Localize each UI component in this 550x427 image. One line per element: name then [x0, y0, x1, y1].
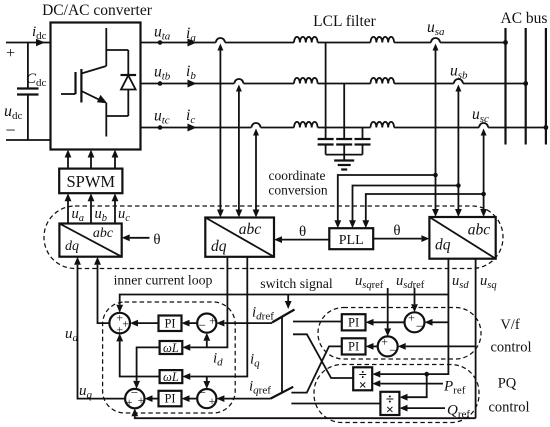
diode D1 triangle — [121, 75, 136, 89]
wire: S4 output to PI — [190, 398, 198, 400]
wire: u_q output from S3 up to left dq/abc — [78, 265, 126, 399]
wire: PLL theta to right dq/abc — [373, 238, 421, 240]
wire: DC positive rail — [6, 42, 51, 44]
wire: u_sq vertical from right dq/abc — [475, 259, 477, 419]
node: u_sd branch dot — [424, 372, 429, 377]
svg-text:+: + — [381, 335, 388, 349]
svg-text:+: + — [6, 45, 15, 62]
svg-text:DC/AC converter: DC/AC converter — [42, 2, 153, 19]
wire: modulation input u to SPWM x=68 — [67, 200, 69, 223]
diode D1 bottom lead — [127, 90, 129, 117]
node: junction dot — [433, 173, 438, 178]
wire: SW1 lower throw from PQ divider (crossing diagonal) — [293, 334, 353, 378]
svg-text:+: + — [209, 314, 216, 328]
ground — [343, 155, 345, 161]
inductor L2a — [371, 41, 395, 44]
svg-text:AC bus: AC bus — [501, 10, 548, 27]
capacitor Cdc branch wire bottom — [27, 95, 29, 141]
wire: voltage sense vertical x=435.5 — [433, 44, 439, 51]
svg-text:θ: θ — [393, 223, 400, 239]
capacitor Cfa — [318, 138, 334, 140]
inductor L2b — [371, 82, 395, 85]
inductor L1b — [294, 82, 318, 85]
tap bump at x=238.9 on phase b — [234, 82, 243, 85]
svg-text:−: − — [199, 385, 206, 400]
svg-text:dq: dq — [211, 238, 227, 255]
wire: switch signal drop arrow — [287, 295, 289, 302]
svg-text:−: − — [199, 318, 206, 333]
op block: divider/multiplier 1 — [353, 367, 372, 390]
svg-text:switch signal: switch signal — [260, 276, 333, 291]
node: phase c AC bus connection dot — [544, 125, 549, 130]
svg-text:abc: abc — [468, 222, 491, 239]
summing junction S6 (V/f q) — [378, 336, 398, 356]
arrow: emitter — [97, 95, 107, 104]
wire: u_sqref down into S6 — [387, 288, 389, 328]
arrow: i_a current direction — [188, 39, 197, 47]
wire: i_q branch down into S4 — [206, 377, 208, 382]
capacitor Cfc — [355, 138, 371, 140]
AC bus bar 1 — [504, 28, 506, 145]
transistor Q1 gate lead — [61, 93, 76, 95]
dashed boundary: coordinate conversion group — [44, 206, 503, 269]
wire: Q_ref input — [408, 407, 446, 409]
wire: DC negative rail — [6, 139, 51, 141]
svg-text:θ: θ — [153, 232, 160, 248]
node: junction dot — [456, 183, 461, 188]
wire: i_d feedback up into S2 — [206, 341, 208, 348]
tap bump at x=256.0 on phase c — [251, 126, 260, 129]
wire: u_sq feedforward line into S3 bottom — [135, 416, 476, 418]
inductor L1a — [294, 41, 318, 44]
wire: PLL feed line y=185.5 — [353, 186, 459, 221]
dashed boundary: PQ control — [314, 365, 479, 423]
wire: phase c line u_tc — [141, 127, 546, 129]
wire: PLL theta to center dq/abc — [282, 239, 329, 241]
svg-text:PLL: PLL — [339, 233, 364, 248]
svg-text:PI: PI — [164, 392, 175, 406]
arrow: i_b current direction — [188, 80, 197, 88]
PI block (q axis) — [159, 391, 182, 407]
svg-text:−: − — [389, 343, 396, 358]
tap bump at x=483.6 on phase c — [479, 126, 488, 129]
DC/AC converter box — [51, 23, 141, 150]
svg-text:LCL filter: LCL filter — [313, 13, 377, 30]
switch SW2 blade (q axis) — [271, 387, 294, 399]
summing junction S2 (i_d error) — [197, 314, 216, 333]
wire: top rail to diode — [106, 49, 128, 51]
transistor Q1 collector diagonal — [81, 66, 106, 74]
wire: u_sd vertical from right dq/abc — [380, 259, 448, 374]
svg-text:+: + — [408, 311, 415, 325]
op block: left dq/abc transform — [59, 224, 121, 257]
svg-text:dq: dq — [435, 237, 451, 254]
wire: SPWM gate drive x=91 — [90, 157, 92, 169]
wire: PI1 output to S1 — [138, 322, 159, 324]
PI block (d axis) — [159, 316, 182, 332]
wire: S6 output to V/f PI2 — [374, 345, 378, 347]
tap bump at x=458.4 on phase b — [454, 82, 463, 85]
wire: P_ref input — [380, 383, 443, 385]
svg-text:conversion: conversion — [268, 183, 327, 198]
wire: u_sdref down into S5 — [414, 288, 416, 304]
capacitor Cdc plates — [17, 87, 39, 89]
svg-text:+: + — [209, 394, 216, 408]
svg-text:dq: dq — [65, 239, 79, 254]
wire: theta input stub to left dq/abc — [130, 237, 150, 239]
wire: S5 output to V/f PI1 — [374, 321, 405, 323]
wire: phase a line u_ta — [141, 42, 506, 44]
summing junction S4 (i_q error) — [197, 389, 216, 408]
wire: PLL feed line y=175 — [338, 175, 436, 221]
summing junction S5 (V/f d) — [405, 312, 425, 332]
op block: divider/multiplier 2 — [380, 392, 399, 415]
summing junction S3 (u_q) — [125, 389, 144, 408]
wire: current sense vertical x=256.0 — [253, 129, 259, 136]
tap bump at x=435.5 on phase a — [431, 41, 440, 44]
transistor Q1 gate bar — [74, 72, 76, 94]
AC bus bar 3 — [545, 28, 547, 145]
svg-text:θ: θ — [299, 224, 306, 240]
PLL block — [329, 228, 373, 249]
wire: filter cap branch phase b — [343, 84, 345, 140]
svg-text:+: + — [126, 395, 133, 409]
wire: filter cap branch phase a — [325, 43, 327, 140]
dashed boundary: V/f control — [318, 308, 481, 360]
wire: switch linkage — [281, 317, 283, 393]
transistor Q1 emitter lead — [105, 103, 107, 137]
svg-text:V/f: V/f — [500, 317, 520, 333]
svg-text:−: − — [5, 120, 15, 140]
svg-text:×: × — [386, 403, 394, 418]
wire: u_sq into S6 right — [406, 345, 476, 347]
wire: u_sd into S5 right — [433, 321, 449, 323]
SPWM block — [59, 169, 122, 194]
svg-text:−: − — [416, 319, 423, 334]
op block: right abc/dq transform — [429, 217, 495, 259]
wire: phase b line u_tb — [141, 83, 526, 85]
wire: modulation input u to SPWM x=115 — [114, 200, 116, 223]
svg-text:+: + — [122, 317, 129, 331]
tap bump at x=220.4 on phase a — [216, 41, 225, 44]
summing junction S1 (u_d) — [109, 313, 130, 334]
wire: SPWM gate drive x=68 — [67, 157, 69, 169]
wire: S2 output to PI — [190, 322, 198, 324]
diode D1 top lead — [127, 50, 129, 75]
svg-text:ωL: ωL — [163, 370, 179, 384]
svg-text:abc: abc — [239, 221, 262, 238]
wire: SPWM gate drive x=115 — [114, 157, 116, 169]
wire: voltage sense vertical x=483.6 — [481, 129, 487, 136]
wire: SW1 upper throw from V/f PI1 — [293, 321, 342, 323]
wire: i_dref common line to S2 — [225, 322, 272, 324]
wire: wL2 output up into S1 — [120, 341, 160, 376]
wire: PI2 output to S3 — [153, 398, 159, 400]
node: phase a AC bus connection dot — [503, 40, 508, 45]
wire: wL1 output down into S3 — [137, 347, 160, 381]
node: junction dot — [481, 192, 486, 197]
node: phase a junction dot — [158, 40, 163, 45]
transistor Q1 emitter diagonal — [81, 91, 103, 102]
arrow: i_c current direction — [188, 124, 197, 132]
wire: modulation input u to SPWM x=91 — [90, 200, 92, 223]
diode D1 cathode bar — [121, 74, 137, 76]
svg-text:+: + — [138, 393, 145, 407]
wire: i_qref common line to S4 — [224, 398, 270, 400]
switch SW1 blade (d axis) — [272, 310, 295, 323]
transistor Q1 IGBT collector lead — [105, 28, 107, 66]
wire: voltage sense vertical x=458.4 — [455, 85, 461, 92]
wire: i_d from center dq/abc down and to wL1 — [190, 257, 227, 348]
arrow: i_dc direction — [36, 39, 45, 47]
wire: capacitor common bus — [326, 154, 363, 156]
wL block 1 — [160, 341, 183, 354]
inductor L1c — [294, 126, 318, 129]
inductor L2c — [371, 126, 395, 129]
svg-text:coordinate: coordinate — [269, 168, 326, 183]
node: phase c junction dot — [158, 125, 163, 130]
svg-text:PI: PI — [348, 316, 359, 330]
capacitor Cfb — [336, 138, 352, 140]
svg-text:abc: abc — [93, 226, 114, 241]
wire: filter cap branch phase c — [362, 128, 364, 140]
PI block V/f 2 — [342, 338, 366, 354]
node: phase b AC bus connection dot — [523, 81, 528, 86]
svg-text:inner current loop: inner current loop — [114, 273, 213, 288]
svg-text:SPWM: SPWM — [66, 172, 115, 191]
svg-text:PI: PI — [164, 316, 175, 330]
svg-text:×: × — [359, 378, 367, 393]
wire: bottom rail to diode — [106, 115, 128, 117]
wire: u_sd feedforward line — [120, 295, 449, 305]
transistor Q1 main bar — [80, 69, 82, 103]
node: phase b junction dot — [158, 81, 163, 86]
wire: current sense vertical x=220.4 — [217, 44, 223, 51]
wire: SW2 lower throw from PQ divider 2 — [291, 403, 380, 405]
svg-text:ωL: ωL — [163, 341, 179, 355]
svg-text:control: control — [490, 340, 531, 356]
wire: u_d output from S1 up to left dq/abc — [98, 265, 110, 323]
op block: center abc/dq transform — [205, 218, 274, 257]
dashed boundary: inner current loop — [103, 302, 236, 413]
AC bus bar 2 — [525, 28, 527, 145]
wire: current sense vertical x=238.9 — [236, 85, 242, 92]
wL block 2 — [160, 370, 183, 383]
svg-text:PI: PI — [348, 340, 359, 354]
wire: i_q from center dq/abc down and to wL2 — [190, 257, 247, 377]
svg-text:PQ: PQ — [498, 376, 517, 392]
wire: SW2 upper throw from V/f PI2 (crossing diagonal) — [291, 346, 341, 392]
capacitor Cdc branch wire top — [27, 43, 29, 89]
wire: PLL feed line y=194 — [366, 194, 484, 221]
svg-text:control: control — [488, 400, 529, 416]
wire: u_sd branch to divider 2 — [408, 374, 427, 397]
PI block V/f 1 — [342, 314, 366, 330]
